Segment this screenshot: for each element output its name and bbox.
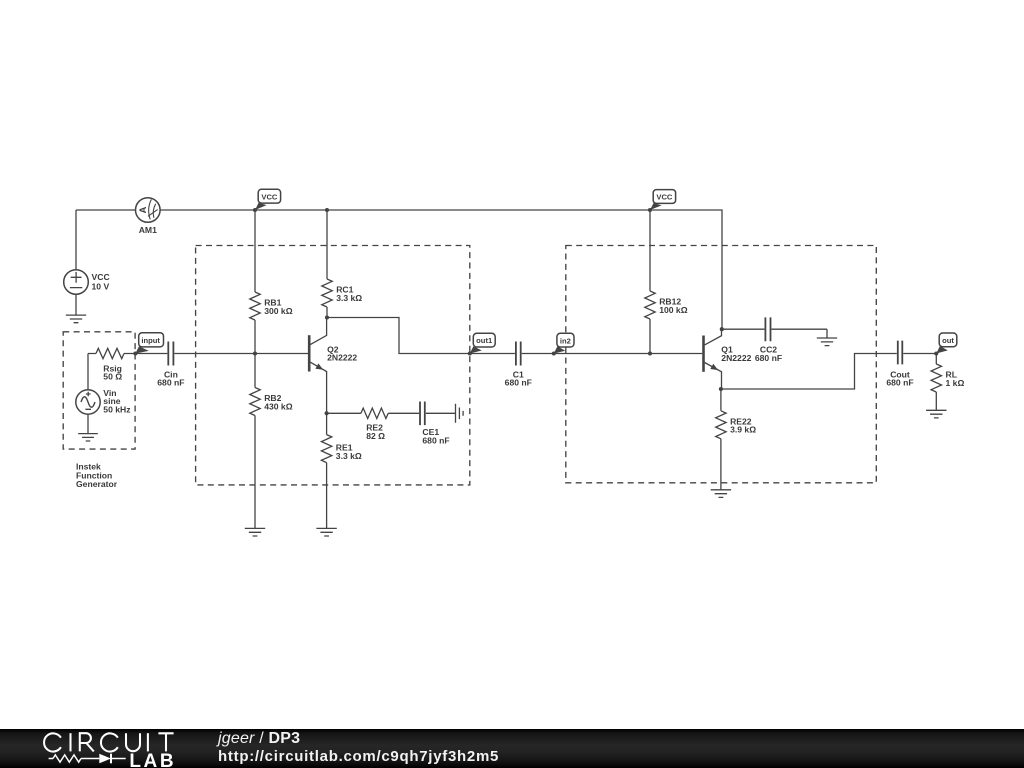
svg-text:3.3 kΩ: 3.3 kΩ [336, 451, 362, 461]
node junction Q2 emitter [325, 411, 329, 415]
wire top rail left of ammeter [76, 209, 136, 211]
svg-text:50 kHz: 50 kHz [103, 405, 130, 415]
node junction RC1 collector [325, 315, 329, 319]
footer bar [0, 729, 1024, 768]
ground right of CC2 [817, 329, 837, 345]
svg-text:50 Ω: 50 Ω [103, 372, 122, 382]
ammeter AM1 [136, 198, 161, 235]
wire collector node to out1 line [327, 318, 470, 354]
node junction VCC rail at RC1 [325, 208, 329, 212]
node flag out [934, 333, 957, 356]
voltage source VCC 10 V [64, 210, 110, 315]
ground below Vin [78, 434, 98, 441]
svg-text:out1: out1 [476, 336, 493, 345]
VCC flag 1 [255, 189, 281, 210]
resistor RE22 3.9 kohm [716, 389, 757, 490]
resistor RE1 3.3 kohm [321, 413, 362, 528]
svg-text:680 nF: 680 nF [886, 378, 913, 388]
svg-text:A: A [138, 206, 148, 213]
footer title jgeer / DP3 [218, 730, 300, 748]
footer url [218, 748, 499, 765]
svg-text:2N2222: 2N2222 [721, 353, 751, 363]
svg-text:1 kΩ: 1 kΩ [946, 378, 965, 388]
svg-text:VCC: VCC [261, 192, 278, 201]
node flag out1 [468, 333, 495, 355]
dashed box Instek function generator [63, 332, 135, 449]
resistor RC1 3.3 kohm [322, 210, 363, 318]
dashed box second stage [566, 246, 877, 483]
svg-text:in2: in2 [560, 336, 571, 345]
ground right of CE1 [456, 404, 464, 423]
node flag input [133, 333, 163, 356]
resistor Rsig 50 ohm [88, 348, 135, 381]
node junction VCC rail at RB12 [648, 208, 652, 212]
logo resistor and diode glyph [49, 754, 126, 764]
resistor RB2 430 kohm [250, 354, 293, 529]
ground below RE1 [316, 528, 336, 536]
svg-text:VCC: VCC [92, 272, 110, 282]
svg-text:LAB: LAB [129, 751, 176, 768]
capacitor Cin 680 nF [135, 342, 308, 388]
wire emitter to output line [721, 354, 897, 390]
svg-text:out: out [942, 336, 954, 345]
svg-text:3.9 kΩ: 3.9 kΩ [730, 425, 756, 435]
svg-text:input: input [141, 336, 160, 345]
resistor RB12 100 kohm [645, 210, 688, 354]
ground below RB2 [245, 528, 265, 536]
node junction base line at RB12 [648, 351, 652, 355]
node junction VCC rail at RB1 [253, 208, 257, 212]
capacitor CC2 680 nF [722, 317, 827, 363]
resistor RB1 300 kohm [250, 210, 293, 354]
svg-text:AM1: AM1 [139, 225, 157, 235]
voltage source Vin sine 50 kHz [76, 354, 131, 434]
svg-text:680 nF: 680 nF [157, 378, 184, 388]
capacitor Cout 680 nF [886, 341, 936, 388]
dashed box first stage [196, 246, 470, 485]
resistor RE2 82 ohm [327, 408, 419, 441]
svg-text:2N2222: 2N2222 [327, 353, 357, 363]
capacitor C1 680 nF [470, 342, 702, 388]
capacitor CE1 680 nF [420, 402, 456, 446]
svg-text:3.3 kΩ: 3.3 kΩ [336, 293, 362, 303]
ground below VCC source [66, 315, 86, 323]
transistor Q2 2N2222 [309, 318, 357, 414]
svg-text:680 nF: 680 nF [505, 378, 532, 388]
wire top rail from ammeter to right corner down to Q1 collector node [160, 210, 722, 329]
node flag in2 [552, 333, 574, 355]
CircuitLab logo text [44, 733, 176, 768]
node junction Q1 emitter [719, 387, 723, 391]
resistor RL 1 kohm [931, 354, 964, 411]
node junction base line at RB1/RB2 [253, 351, 257, 355]
svg-text:300 kΩ: 300 kΩ [264, 306, 293, 316]
transistor Q1 2N2222 [704, 329, 752, 389]
svg-text:10 V: 10 V [92, 281, 110, 291]
svg-text:680 nF: 680 nF [422, 435, 449, 445]
node junction Q1 collector [720, 327, 724, 331]
svg-text:VCC: VCC [656, 193, 673, 202]
svg-text:430 kΩ: 430 kΩ [264, 401, 293, 411]
svg-text:680 nF: 680 nF [755, 353, 782, 363]
svg-text:Generator: Generator [76, 479, 118, 489]
svg-text:100 kΩ: 100 kΩ [659, 305, 688, 315]
VCC flag 2 [650, 190, 676, 210]
svg-text:82 Ω: 82 Ω [366, 431, 385, 441]
ground below RL [926, 410, 946, 418]
ground below RE22 [711, 490, 731, 498]
label Instek Function Generator [76, 462, 118, 490]
